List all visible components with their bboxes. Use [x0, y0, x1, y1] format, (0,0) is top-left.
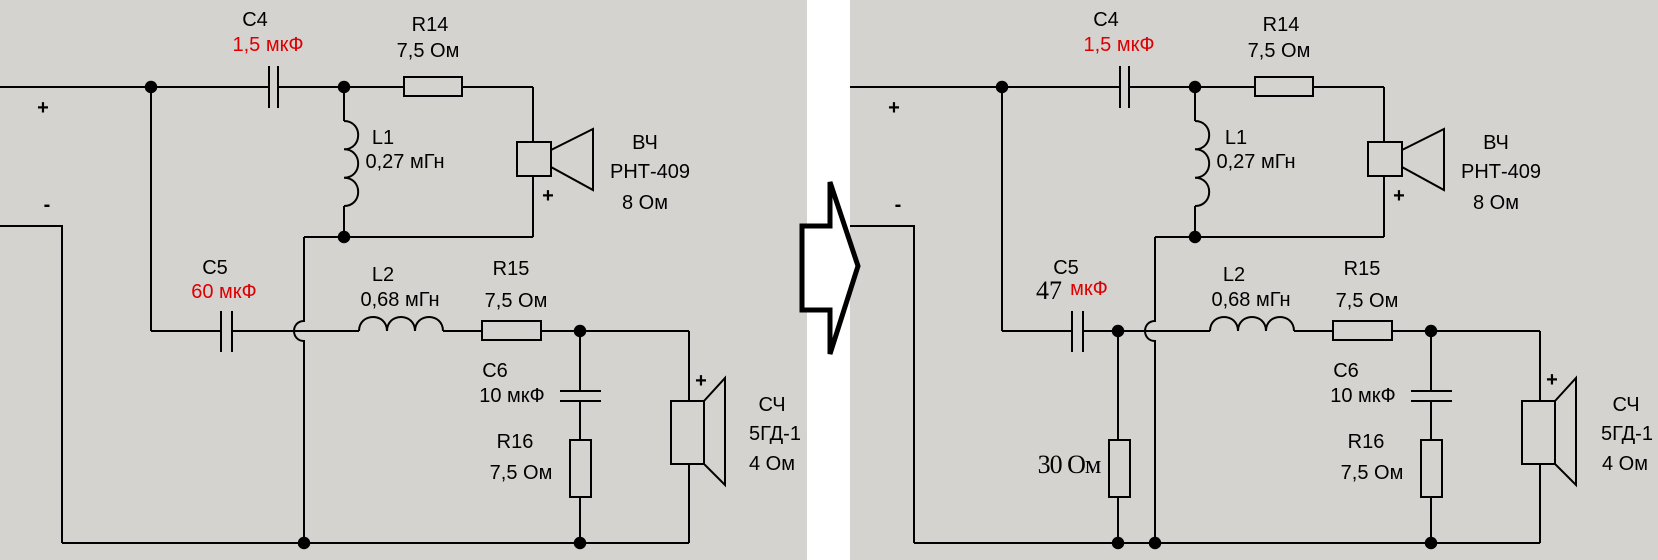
wire tweeter vertical upper [532, 87, 534, 142]
wire L2 to R15 [443, 330, 482, 332]
node dot C6' branch at bottom bus [1425, 537, 1438, 550]
speaker SCh horn [704, 378, 725, 485]
wire minus lead (right) [850, 226, 914, 543]
capacitor C5 [221, 311, 232, 352]
wire C5' to L2' [1083, 330, 1210, 332]
wire vertical C4/L1 branch [343, 87, 345, 121]
wire vertical C4'/L1' branch [1194, 87, 1196, 121]
speaker BCh box (right) [1368, 142, 1402, 176]
wire speaker SCh to bottom bus [688, 464, 690, 543]
resistor R15 (right) [1333, 321, 1392, 340]
capacitor C5 (right) [1072, 311, 1083, 352]
svg-text:-: - [44, 194, 51, 216]
capacitor C4 [269, 66, 278, 108]
svg-text:СЧ: СЧ [758, 394, 785, 416]
wire R16 to bottom bus [579, 497, 581, 543]
node dot 30 Om at bottom bus [1112, 537, 1125, 550]
wire R14 to top-right corner [462, 86, 533, 88]
resistor R16 (right) [1421, 440, 1442, 497]
wire C4 to R14 [278, 86, 404, 88]
wire midrange branch vertical [688, 331, 690, 401]
capacitor C4 (right) [1120, 66, 1129, 108]
wire L1 bottom lead [343, 206, 345, 237]
svg-text:1,5 мкФ: 1,5 мкФ [232, 34, 303, 56]
wire minus lead [0, 226, 62, 543]
svg-text:7,5 Ом: 7,5 Ом [397, 40, 460, 62]
wire C5 to L2 [232, 330, 359, 332]
svg-text:L1: L1 [372, 127, 394, 149]
resistor 30 Om [1109, 440, 1130, 497]
svg-text:мкФ: мкФ [1070, 278, 1108, 300]
inductor L1 (right) [1195, 121, 1209, 206]
svg-text:+: + [542, 185, 554, 207]
wire bottom bus [62, 542, 689, 544]
svg-text:СЧ: СЧ [1612, 394, 1639, 416]
resistor R16 [570, 440, 591, 497]
svg-text:+: + [1546, 369, 1558, 391]
svg-text:-: - [895, 194, 902, 216]
svg-text:7,5 Ом: 7,5 Ом [490, 462, 553, 484]
svg-text:+: + [888, 97, 900, 119]
speaker BCh horn [551, 129, 593, 190]
wire C4' to R14' [1129, 86, 1255, 88]
svg-text:C6: C6 [482, 360, 508, 382]
wire 30 Om branch bottom [1117, 497, 1119, 543]
wire left vertical from plus bus down to C5 bus [150, 87, 152, 331]
wire R15 to mid junction [541, 330, 689, 332]
svg-text:4 Ом: 4 Ом [749, 453, 795, 475]
wire vertical with hop over C5 bus [294, 237, 304, 543]
white gap band between panels [807, 0, 850, 560]
node dot top-left junction [145, 81, 158, 94]
wire horizontal under L1' [1155, 236, 1384, 238]
svg-text:30 Ом: 30 Ом [1038, 450, 1101, 479]
svg-text:РНТ-409: РНТ-409 [610, 161, 690, 183]
node dot hop branch at bottom bus [298, 537, 311, 550]
speaker BCh box [517, 142, 551, 176]
wire R14' to top-right corner [1313, 86, 1384, 88]
svg-text:4 Ом: 4 Ом [1602, 453, 1648, 475]
wire speaker SCh to bottom bus (right) [1539, 464, 1541, 543]
speaker SCh box [671, 401, 704, 464]
svg-text:0,68 мГн: 0,68 мГн [361, 289, 440, 311]
resistor R14 [404, 77, 462, 96]
svg-text:L2: L2 [372, 264, 394, 286]
svg-text:R15: R15 [1344, 258, 1381, 280]
inductor L1 [344, 121, 358, 206]
svg-text:C4: C4 [242, 9, 268, 31]
speaker SCh horn (right) [1555, 378, 1576, 485]
svg-text:0,68 мГн: 0,68 мГн [1212, 289, 1291, 311]
svg-text:8 Ом: 8 Ом [1473, 192, 1519, 214]
node dot C4/L1 top junction [338, 81, 351, 94]
node dot C5'/30 Om junction [1112, 325, 1125, 338]
wire R15' to mid junction [1392, 330, 1540, 332]
svg-text:ВЧ: ВЧ [1483, 132, 1509, 154]
svg-text:8 Ом: 8 Ом [622, 192, 668, 214]
svg-text:+: + [1393, 185, 1405, 207]
big arrow between panels [802, 182, 858, 354]
node dot R15'/C6' junction [1425, 325, 1438, 338]
svg-text:C4: C4 [1093, 9, 1119, 31]
node dot R15/C6 junction [574, 325, 587, 338]
svg-text:0,27 мГн: 0,27 мГн [366, 151, 445, 173]
svg-text:7,5 Ом: 7,5 Ом [1341, 462, 1404, 484]
node dot L1 bottom junction [338, 231, 351, 244]
node dot top-left junction (right) [996, 81, 1009, 94]
svg-text:0,27 мГн: 0,27 мГн [1217, 151, 1296, 173]
svg-text:10 мкФ: 10 мкФ [1330, 385, 1396, 407]
svg-text:C6: C6 [1333, 360, 1359, 382]
wire midrange branch vertical (right) [1539, 331, 1541, 401]
wire C6' to R16' [1430, 401, 1432, 440]
node dot C4'/L1' top junction [1189, 81, 1202, 94]
wire top bus left of C4' [850, 86, 1120, 88]
svg-text:5ГД-1: 5ГД-1 [1601, 423, 1653, 445]
wire C6' branch top [1430, 331, 1432, 391]
svg-text:C5: C5 [202, 257, 228, 279]
wire horizontal under L1 [304, 236, 533, 238]
resistor R14 (right) [1255, 77, 1313, 96]
wire left vertical from plus bus down to C5' bus [1001, 87, 1003, 331]
svg-text:L2: L2 [1223, 264, 1245, 286]
svg-text:R14: R14 [412, 14, 449, 36]
wire C6 to R16 [579, 401, 581, 440]
wire vertical with hop over C5' bus [1145, 237, 1155, 543]
wire 30 Om branch top [1117, 331, 1119, 440]
node dot hop branch at bottom bus (right) [1149, 537, 1162, 550]
svg-text:5ГД-1: 5ГД-1 [749, 423, 801, 445]
inductor L2 [359, 317, 443, 331]
node dot C6 branch at bottom bus [574, 537, 587, 550]
svg-text:7,5 Ом: 7,5 Ом [1336, 290, 1399, 312]
svg-text:L1: L1 [1225, 127, 1247, 149]
wire tweeter vertical lower (right) [1383, 176, 1385, 237]
wire C6 branch top [579, 331, 581, 391]
capacitor C6 (right) [1411, 391, 1452, 401]
node dot L1' bottom junction [1189, 231, 1202, 244]
speaker BCh horn (right) [1402, 129, 1444, 190]
wire L2' to R15' [1294, 330, 1333, 332]
speaker SCh box (right) [1522, 401, 1555, 464]
wire R16' to bottom bus [1430, 497, 1432, 543]
wire L1' bottom lead [1194, 206, 1196, 237]
wire tweeter vertical lower [532, 176, 534, 237]
wire tweeter vertical upper (right) [1383, 87, 1385, 142]
wire bottom bus (right) [914, 542, 1540, 544]
svg-text:1,5 мкФ: 1,5 мкФ [1083, 34, 1154, 56]
capacitor C6 [560, 391, 601, 401]
wire top bus left of C4 [0, 86, 269, 88]
svg-text:R16: R16 [1348, 431, 1385, 453]
wire C5 bus segment [151, 330, 221, 332]
svg-text:R15: R15 [493, 258, 530, 280]
svg-text:7,5 Ом: 7,5 Ом [485, 290, 548, 312]
svg-text:7,5 Ом: 7,5 Ом [1248, 40, 1311, 62]
svg-text:R16: R16 [497, 431, 534, 453]
svg-text:10 мкФ: 10 мкФ [479, 385, 545, 407]
svg-text:60 мкФ: 60 мкФ [191, 281, 257, 303]
resistor R15 [482, 321, 541, 340]
svg-text:+: + [695, 370, 707, 392]
wire C5' bus segment [1002, 330, 1072, 332]
svg-text:47: 47 [1036, 276, 1062, 305]
svg-text:+: + [37, 97, 49, 119]
svg-text:РНТ-409: РНТ-409 [1461, 161, 1541, 183]
inductor L2 (right) [1210, 317, 1294, 331]
svg-text:ВЧ: ВЧ [632, 132, 658, 154]
svg-text:R14: R14 [1263, 14, 1300, 36]
